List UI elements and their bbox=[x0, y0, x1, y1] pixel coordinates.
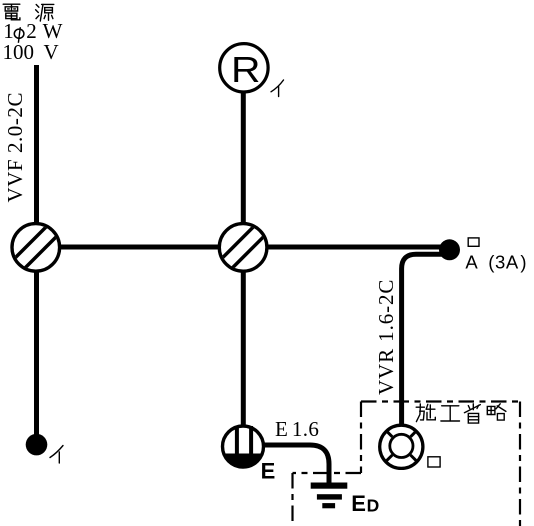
svg-text:100V: 100V bbox=[3, 40, 59, 64]
outdoor light bbox=[380, 425, 423, 468]
label ロ for outdoor light bbox=[428, 457, 440, 467]
label イ for lamp R bbox=[271, 80, 284, 97]
switch イ dot bbox=[26, 434, 48, 456]
svg-text:D: D bbox=[367, 496, 380, 516]
junction box left bbox=[10, 221, 62, 273]
switch A(3A) dot bbox=[439, 239, 460, 260]
wire left junction to right junction bbox=[36, 245, 244, 250]
dashed outline upper-left of 施工省略 box bbox=[360, 402, 362, 474]
dashed outline jog of 施工省略 box bbox=[293, 472, 362, 474]
label 施工省略 (construction omitted) bbox=[416, 404, 435, 422]
dashed outline lower-left of 施工省略 box bbox=[291, 473, 293, 526]
dashed outline right of 施工省略 box bbox=[519, 402, 521, 526]
wire left junction down to switch イ bbox=[34, 270, 39, 435]
wire right junction to switch A bbox=[244, 245, 449, 250]
svg-text:VVF 2.0-2C: VVF 2.0-2C bbox=[3, 92, 27, 203]
label ED bbox=[351, 491, 379, 516]
svg-text:E1.6: E1.6 bbox=[275, 417, 319, 441]
outlet with earth terminal bbox=[223, 426, 264, 467]
svg-text:E: E bbox=[351, 491, 366, 516]
svg-text:R: R bbox=[231, 50, 261, 90]
svg-text:VVR 1.6-2C: VVR 1.6-2C bbox=[374, 279, 398, 395]
wire right junction down to outlet bbox=[241, 270, 246, 426]
wire from power source down to left junction bbox=[34, 65, 39, 225]
dashed outline top of 施工省略 box bbox=[361, 400, 520, 402]
svg-text:E: E bbox=[261, 459, 276, 484]
earth electrode ED bbox=[311, 483, 348, 509]
label イ for switch bbox=[50, 446, 63, 464]
junction box right bbox=[217, 221, 269, 273]
label ロ for switch A bbox=[468, 238, 479, 246]
wire E1.6 from outlet to earth electrode bbox=[264, 445, 329, 483]
wire VVR from switch A to outdoor light bbox=[402, 254, 445, 426]
label 電源 (power source) bbox=[3, 4, 20, 20]
wire R lamp down to right junction bbox=[241, 92, 246, 225]
lamp receptacle R bbox=[220, 44, 268, 92]
svg-text:A(3A): A(3A) bbox=[465, 251, 527, 272]
